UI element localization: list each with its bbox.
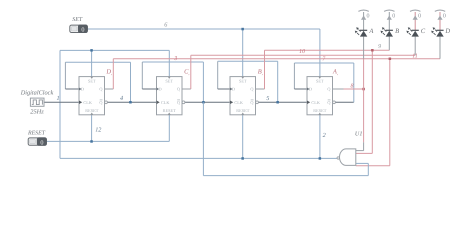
U1 output bubble bbox=[337, 157, 339, 159]
wire RESET riser to U2 RESET bbox=[168, 115, 170, 142]
svg-text:SET: SET bbox=[88, 79, 96, 84]
wire U1ff Qbar output bbox=[107, 101, 156, 103]
wire U3ff Qbar output bbox=[258, 101, 307, 103]
svg-text:CLK: CLK bbox=[234, 100, 243, 105]
svg-text:10: 10 bbox=[299, 49, 305, 55]
svg-text:C: C bbox=[421, 28, 426, 35]
ground rail 0V above LED B bbox=[384, 10, 394, 11]
LED A bbox=[360, 29, 367, 31]
wire net9 Q riser bbox=[264, 50, 266, 89]
svg-text:12: 12 bbox=[95, 127, 101, 134]
LED C bbox=[412, 29, 419, 31]
flip-flop U1 (D) bbox=[79, 77, 105, 115]
U4 SET input arrow bbox=[318, 77, 321, 79]
LED D bbox=[436, 29, 443, 31]
junction net7 to NAND in4 bbox=[389, 59, 391, 166]
U4 Qbar bubble bbox=[333, 101, 336, 104]
wire LED B cathode to rail bbox=[388, 12, 390, 31]
wire U1ff D feedback loop bbox=[130, 62, 132, 102]
svg-text:9: 9 bbox=[378, 44, 381, 50]
ground rail 0V above LED D bbox=[435, 10, 445, 11]
wire RESET pin horizontal bbox=[47, 140, 170, 142]
wire net7 Q riser bbox=[112, 59, 114, 89]
U4 D input arrow bbox=[307, 88, 310, 91]
wire LED A cathode to rail bbox=[363, 12, 365, 31]
ground rail 0V above LED C bbox=[410, 10, 420, 11]
wire net6 SET horizontal bbox=[87, 28, 320, 30]
svg-text:1: 1 bbox=[56, 95, 59, 102]
svg-text:DigitalClock: DigitalClock bbox=[20, 89, 54, 96]
svg-text:8: 8 bbox=[351, 84, 354, 90]
wire U3ff D feedback loop bbox=[277, 61, 279, 102]
flip-flop U2 (C) bbox=[157, 77, 183, 115]
junction net8 bbox=[362, 88, 365, 91]
U4 RESET input arrow bbox=[318, 113, 321, 115]
junction U1ff Qbar bbox=[129, 101, 132, 104]
U4 CLK edge arrow bbox=[307, 101, 310, 105]
svg-text:RESET: RESET bbox=[27, 130, 46, 136]
wire drop to U2 SET pin bbox=[168, 50, 170, 76]
svg-text:A,: A, bbox=[332, 69, 338, 76]
svg-text:D: D bbox=[444, 28, 450, 35]
U2 D input arrow bbox=[157, 88, 160, 91]
clock source DigitalClock 25Hz bbox=[30, 98, 44, 106]
wire U4 RESET drop to bus bbox=[319, 115, 321, 159]
wire LED D cathode to rail bbox=[439, 12, 441, 31]
wire U2ff Q stub bbox=[182, 88, 191, 90]
U3 RESET input arrow bbox=[241, 113, 244, 115]
U3 Qbar bubble bbox=[256, 101, 259, 104]
svg-text:0: 0 bbox=[367, 14, 370, 20]
U1 SET input arrow bbox=[90, 77, 93, 79]
wire U2ff Qbar output bbox=[185, 101, 230, 103]
svg-text:0: 0 bbox=[81, 27, 84, 34]
wire net7 horizontal to LED D bbox=[113, 58, 440, 60]
junction drop to U1ff SET pin bbox=[91, 50, 93, 76]
wire bus top horizontal to U2 SET bbox=[60, 49, 169, 51]
U1 RESET input arrow bbox=[90, 113, 93, 115]
wire LED C anode bbox=[414, 37, 416, 56]
svg-text:B: B bbox=[395, 28, 399, 35]
LED C emission arrows bbox=[410, 30, 412, 32]
svg-text:0: 0 bbox=[418, 14, 421, 20]
svg-text:SET: SET bbox=[165, 79, 173, 84]
svg-text:0: 0 bbox=[443, 14, 446, 20]
junction net6 at U3 SET bbox=[242, 29, 244, 77]
svg-text:6: 6 bbox=[164, 21, 168, 28]
wire clock to U1ff CLK bbox=[44, 101, 79, 103]
wire bus left riser bbox=[59, 50, 61, 158]
wire NAND output bus horizontal bbox=[60, 157, 337, 159]
ground rail 0V above LED A bbox=[358, 10, 368, 11]
svg-text:CLK: CLK bbox=[311, 100, 320, 105]
wire U2ff D feedback loop bbox=[202, 62, 204, 102]
svg-text:RESET: RESET bbox=[313, 108, 327, 113]
wire U4 Q stub bbox=[332, 88, 344, 90]
svg-text:4: 4 bbox=[120, 95, 123, 102]
U1 D input arrow bbox=[79, 88, 82, 91]
U2 RESET input arrow bbox=[168, 113, 171, 115]
U1 CLK edge arrow bbox=[79, 101, 82, 105]
svg-text:3: 3 bbox=[173, 56, 177, 62]
flip-flop U3 (B) bbox=[230, 77, 256, 115]
svg-text:RESET: RESET bbox=[163, 108, 177, 113]
U2 SET input arrow bbox=[168, 77, 171, 79]
wire net8 drop to NAND in1 bbox=[363, 89, 365, 142]
svg-text:25Hz: 25Hz bbox=[30, 109, 44, 116]
wire net8 horizontal bbox=[344, 88, 364, 90]
svg-text:CLK: CLK bbox=[83, 100, 92, 105]
wire U3 Q stub bbox=[256, 88, 265, 90]
LED A emission arrows bbox=[359, 30, 361, 32]
junction U2ff Qbar bbox=[202, 101, 205, 104]
svg-text:C,: C, bbox=[184, 69, 189, 76]
wire U1ff Q stub bbox=[105, 88, 114, 90]
LED B bbox=[386, 29, 393, 31]
svg-text:SET: SET bbox=[239, 79, 247, 84]
junction net9 to NAND in2 bbox=[371, 50, 373, 153]
wire net11 Q riser bbox=[190, 55, 192, 89]
nand gate U1 bbox=[340, 149, 356, 166]
svg-text:D,: D, bbox=[105, 69, 112, 76]
U2 CLK edge arrow bbox=[157, 101, 160, 105]
svg-text:SET: SET bbox=[316, 79, 324, 84]
svg-text:CLK: CLK bbox=[161, 100, 170, 105]
svg-text:SET: SET bbox=[72, 17, 83, 23]
U3 SET input arrow bbox=[241, 77, 244, 79]
svg-text:7: 7 bbox=[322, 56, 326, 62]
svg-text:5: 5 bbox=[266, 95, 269, 102]
wire net9 horizontal to LED B bbox=[265, 49, 390, 51]
input pin SET value 0 bbox=[70, 25, 88, 32]
svg-text:RESET: RESET bbox=[236, 108, 250, 113]
svg-text:U1: U1 bbox=[355, 130, 363, 137]
U1 Qbar bubble bbox=[105, 101, 108, 104]
junction RESET to U1ff RESET bbox=[91, 115, 93, 142]
junction U3ff Qbar bbox=[276, 101, 279, 104]
LED B emission arrows bbox=[384, 30, 386, 32]
wire Qbar2 drop bbox=[202, 102, 204, 175]
svg-text:0: 0 bbox=[392, 14, 395, 20]
svg-text:0: 0 bbox=[40, 139, 43, 146]
wire U3 RESET drop to bus bbox=[242, 115, 244, 159]
svg-text:A: A bbox=[368, 28, 374, 35]
wire net7 riser to LED D bbox=[439, 37, 441, 59]
U3 D input arrow bbox=[230, 88, 233, 91]
wire net6 drop to U4 SET bbox=[319, 29, 321, 77]
wire U4ff D feedback loop bbox=[353, 63, 355, 102]
input pin RESET value 0 bbox=[28, 138, 46, 145]
wire U4ff Qbar output bbox=[335, 101, 354, 103]
wire net11 horizontal to LED C bbox=[191, 54, 415, 56]
wire LED B anode bbox=[388, 37, 390, 51]
svg-text:B,: B, bbox=[258, 69, 263, 76]
wire net8 riser to LED A bbox=[363, 59, 365, 89]
wire LED C cathode to rail bbox=[414, 12, 416, 31]
LED D emission arrows bbox=[435, 30, 437, 32]
U3 CLK edge arrow bbox=[230, 101, 233, 105]
U2 Qbar bubble bbox=[182, 101, 185, 104]
svg-text:2: 2 bbox=[323, 132, 326, 139]
svg-text:RESET: RESET bbox=[85, 108, 99, 113]
flip-flop U4 (A) bbox=[307, 77, 333, 115]
